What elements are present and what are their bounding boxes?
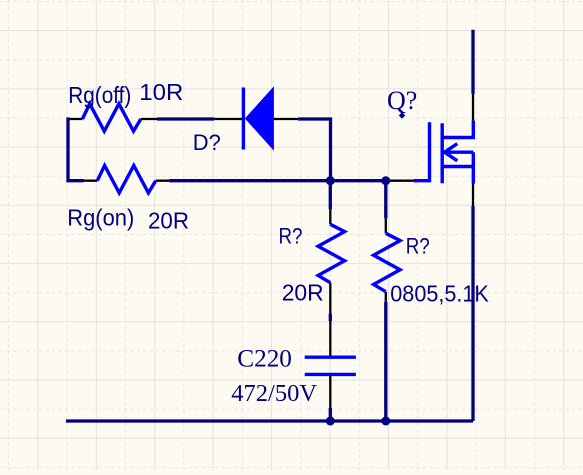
svg-text:C220: C220 xyxy=(237,346,292,373)
svg-text:R?: R? xyxy=(279,223,303,248)
svg-text:20R: 20R xyxy=(282,280,324,306)
svg-text:Rg(off): Rg(off) xyxy=(68,82,131,108)
svg-text:10R: 10R xyxy=(139,79,183,105)
svg-text:472/50V: 472/50V xyxy=(231,380,317,407)
svg-text:0805,5.1K: 0805,5.1K xyxy=(390,281,489,307)
svg-text:Q?: Q? xyxy=(387,86,417,115)
svg-text:Rg(on): Rg(on) xyxy=(67,204,134,230)
svg-text:20R: 20R xyxy=(148,208,189,234)
svg-text:R?: R? xyxy=(406,233,430,258)
svg-text:D?: D? xyxy=(193,130,221,155)
